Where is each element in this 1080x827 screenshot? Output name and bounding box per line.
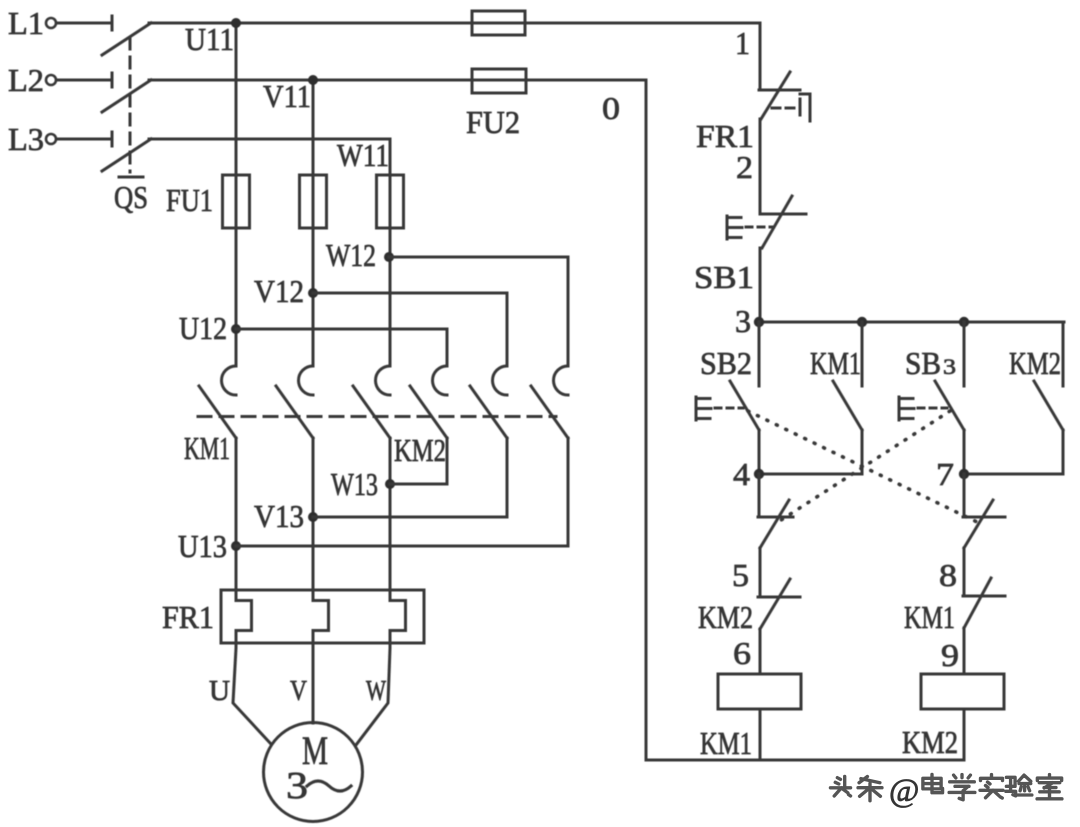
wire node 8 (963, 548, 966, 596)
svg-text:9: 9 (941, 637, 959, 673)
svg-text:V13: V13 (254, 498, 304, 534)
svg-text:QS: QS (114, 179, 148, 215)
svg-text:V: V (290, 675, 307, 707)
button SB2 interlock NC (963, 500, 1005, 548)
wire node4 to SB3 NC (758, 474, 761, 517)
node L1 terminal (8, 5, 112, 41)
svg-text:4: 4 (733, 456, 750, 492)
svg-text:8: 8 (939, 557, 957, 593)
svg-text:1: 1 (735, 25, 750, 61)
contactor KM1 main contact 1 (199, 366, 236, 438)
svg-text:W13: W13 (331, 466, 378, 502)
svg-text:3: 3 (286, 765, 308, 807)
switch QS pole 3 blade (102, 139, 151, 171)
svg-text:L1: L1 (8, 5, 44, 41)
contactor KM1 main contact 3 (353, 366, 390, 438)
svg-text:2: 2 (736, 149, 753, 185)
contact KM2 aux NO (1034, 322, 1063, 474)
svg-text:FR1: FR1 (162, 599, 214, 635)
fuse FU1 pole 2 (300, 175, 327, 228)
wire node2 (759, 119, 762, 214)
switch QS pole 1 blade (102, 23, 151, 55)
FR1 thermal actuator mark (772, 94, 810, 121)
watermark 头条 @电学实验室 (830, 773, 1062, 809)
fuse FU2 pole 2 (472, 69, 526, 93)
wire phase V vertical lower (312, 438, 315, 601)
contact KM1 interlock NC (963, 578, 1005, 628)
svg-text:U12: U12 (179, 310, 227, 346)
wire L2 bus y=80 (149, 79, 646, 82)
node U12 (179, 310, 241, 346)
node 3 junction dot c (959, 317, 969, 327)
svg-text:FU1: FU1 (166, 182, 213, 218)
switch QS linkage dashed (114, 38, 148, 215)
wire heater V to motor (312, 631, 315, 724)
svg-text:V12: V12 (254, 273, 304, 309)
FR1 heater element V (313, 601, 329, 631)
wire node 4 (759, 473, 862, 476)
svg-text:0: 0 (602, 90, 620, 126)
wire bottom rail (646, 759, 964, 762)
svg-text:7: 7 (936, 456, 954, 492)
wire phase W vertical upper (389, 139, 392, 366)
contact KM2 interlock NC (758, 579, 800, 629)
button SB1 stop NC (760, 196, 806, 248)
wire node 1 corner down (759, 23, 762, 90)
wire node3 rail (760, 321, 1064, 324)
wire phase V vertical upper (312, 80, 315, 366)
svg-text:L2: L2 (8, 62, 44, 98)
svg-text:L3: L3 (8, 121, 44, 157)
wire heater W to motor (356, 631, 390, 746)
wire coil KM2 to rail (963, 709, 966, 760)
node 4 junction dot (754, 469, 764, 479)
svg-text:U: U (209, 675, 230, 707)
node V13 (254, 498, 318, 534)
svg-text:SB2: SB2 (700, 345, 752, 381)
svg-text:6: 6 (733, 635, 751, 671)
wire W12 to KM2 contact 6 top (389, 257, 568, 366)
svg-text:W: W (366, 675, 386, 707)
svg-text:W12: W12 (326, 237, 376, 273)
node U11 (185, 18, 241, 57)
fuse FU1 pole 1 (223, 175, 250, 228)
svg-text:KM2: KM2 (698, 599, 753, 635)
contactor KM2 main contact 6 (531, 366, 568, 438)
svg-text:3: 3 (943, 354, 956, 379)
wire 0 rail vertical (645, 80, 648, 760)
svg-text:KM2: KM2 (1009, 345, 1061, 381)
FR1 heater element U (236, 601, 252, 631)
relay contact FR1 NC (759, 72, 800, 119)
svg-text:3: 3 (735, 303, 751, 339)
main contacts linkage dashed (198, 415, 556, 418)
wire phase U vertical upper (235, 23, 238, 366)
contactor KM2 main contact 5 (470, 366, 507, 438)
SB3 actuator E (899, 397, 947, 420)
watermark char 室 (1037, 775, 1062, 799)
svg-text:V11: V11 (263, 78, 311, 114)
coil KM1 (718, 674, 801, 709)
wire contact5 bottom to V13 (313, 438, 507, 517)
node L2 terminal (8, 62, 112, 98)
watermark char 验 (1006, 775, 1032, 796)
watermark char 学 (949, 775, 975, 800)
FR1 heater element W (390, 601, 406, 631)
watermark char 电 (923, 774, 943, 792)
svg-text:KM2: KM2 (394, 432, 446, 468)
linkage SB3 to left NC dotted (778, 411, 950, 522)
node V12 (254, 273, 318, 309)
SB1 actuator E (727, 216, 773, 239)
node 3 junction dot b (857, 317, 867, 327)
svg-text:5: 5 (732, 557, 749, 593)
wire node 5 (759, 548, 762, 597)
svg-text:U11: U11 (185, 21, 234, 57)
node L3 terminal (8, 121, 112, 157)
wire node3 vertical (759, 248, 762, 322)
watermark char 头 (830, 776, 850, 796)
button SB2 start NO (730, 322, 759, 474)
watermark char 实 (980, 775, 1003, 799)
wire L3 bus y=139 (149, 138, 390, 141)
button SB3 interlock NC (758, 500, 793, 548)
wire coil KM1 to rail (759, 709, 762, 760)
wire node 6 (759, 629, 762, 674)
contact KM1 aux NO (833, 322, 862, 474)
svg-text:SB: SB (905, 345, 941, 381)
node 7 junction dot (959, 469, 969, 479)
fuse FU1 pole 3 (377, 175, 404, 228)
wire L1 bus y=23 (149, 22, 760, 25)
wire node 7 (964, 473, 1063, 476)
node W12 (326, 237, 394, 273)
SB2 actuator E (696, 397, 743, 420)
node V11 (263, 75, 318, 114)
svg-text:W11: W11 (337, 137, 389, 173)
svg-text:U13: U13 (178, 528, 227, 564)
wire contact6 bottom to U13 (236, 438, 568, 546)
node 3 junction dot (754, 317, 764, 327)
watermark char 条 (858, 777, 882, 801)
wire node 9 (963, 628, 966, 674)
wire phase W vertical lower (389, 438, 392, 601)
switch QS pole 2 blade (102, 80, 151, 112)
contactor KM2 main contact 4 (410, 366, 447, 438)
wire V12 to KM2 contact 5 top (313, 293, 507, 366)
svg-text:@: @ (889, 773, 919, 809)
coil KM2 (921, 674, 1004, 709)
node W13 (331, 466, 395, 502)
motor M 3~ (264, 723, 363, 822)
svg-text:FU2: FU2 (466, 104, 520, 140)
node U13 (178, 528, 241, 564)
svg-text:KM1: KM1 (810, 345, 861, 381)
linkage SB2 to right NC dotted (748, 411, 977, 522)
wire U12 to KM2 contact 4 top (236, 329, 447, 366)
wire phase U vertical lower (235, 438, 238, 601)
svg-text:SB1: SB1 (694, 259, 754, 295)
contactor KM1 main contact 2 (276, 366, 313, 438)
svg-text:KM1: KM1 (184, 430, 230, 466)
button SB3 start NO (935, 322, 964, 474)
thermal relay FR1 heater box (221, 590, 424, 643)
svg-text:KM1: KM1 (904, 599, 955, 635)
wire contact4 bottom to W13 (390, 438, 447, 484)
wire heater U to motor (233, 631, 271, 745)
wire node7 to SB2 NC (963, 474, 966, 517)
svg-text:KM2: KM2 (902, 724, 958, 760)
svg-text:KM1: KM1 (700, 725, 752, 761)
fuse FU2 pole 1 (472, 11, 525, 35)
